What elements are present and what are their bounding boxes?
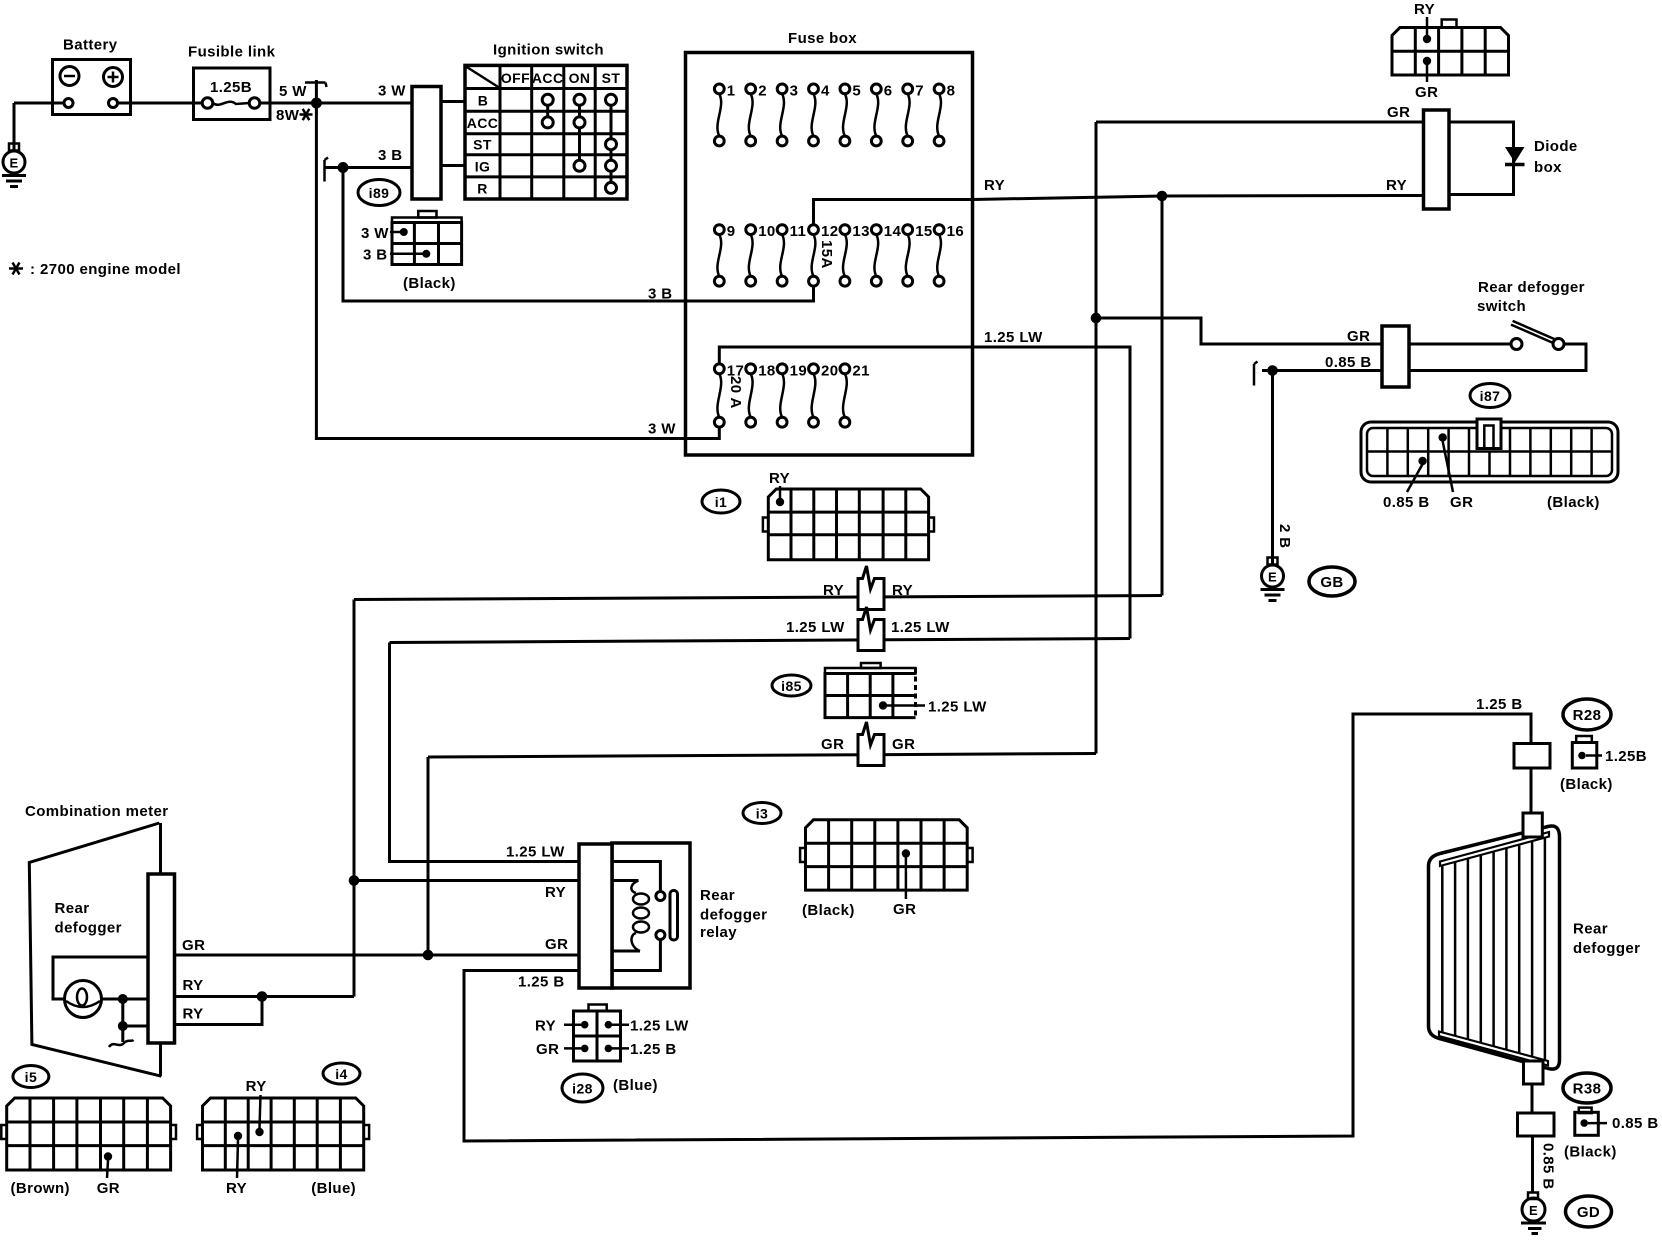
svg-text:Fusible link: Fusible link — [188, 44, 276, 61]
svg-text:1.25B: 1.25B — [210, 79, 252, 96]
svg-text:2 B: 2 B — [1276, 524, 1293, 549]
svg-text:0.85 B: 0.85 B — [1325, 354, 1372, 371]
svg-text:GR: GR — [821, 736, 844, 753]
svg-text:IG: IG — [475, 159, 491, 175]
svg-text:E: E — [1268, 570, 1277, 585]
svg-text:box: box — [1534, 159, 1562, 176]
svg-text:GR: GR — [893, 901, 916, 918]
svg-text:RY: RY — [1414, 1, 1435, 18]
svg-text:6: 6 — [884, 82, 893, 99]
svg-text:1.25 LW: 1.25 LW — [786, 619, 845, 636]
svg-text:1.25 LW: 1.25 LW — [928, 699, 987, 716]
svg-text:GR: GR — [97, 1180, 120, 1197]
svg-text:1.25 B: 1.25 B — [1476, 696, 1523, 713]
svg-text:1.25 LW: 1.25 LW — [891, 619, 950, 636]
svg-text:(Black): (Black) — [1547, 494, 1600, 511]
svg-text:OFF: OFF — [501, 70, 530, 86]
svg-text:E: E — [9, 156, 18, 171]
svg-text:GB: GB — [1320, 574, 1343, 591]
svg-text:0.85 B: 0.85 B — [1540, 1143, 1557, 1190]
svg-text:4: 4 — [821, 82, 830, 99]
svg-text:R28: R28 — [1573, 707, 1602, 724]
svg-text:3 W: 3 W — [648, 421, 676, 438]
svg-text:i89: i89 — [369, 185, 390, 201]
svg-text:Rear defogger: Rear defogger — [1478, 279, 1585, 296]
svg-text:ST: ST — [473, 137, 492, 153]
svg-text:RY: RY — [892, 582, 913, 599]
svg-text:RY: RY — [535, 1018, 556, 1035]
svg-text:1.25 LW: 1.25 LW — [984, 329, 1043, 346]
svg-text:10: 10 — [758, 223, 776, 240]
svg-text:Diode: Diode — [1534, 138, 1578, 155]
svg-text:defogger: defogger — [55, 920, 122, 937]
svg-text:1: 1 — [727, 82, 736, 99]
svg-text:RY: RY — [984, 177, 1005, 194]
svg-text:0.85 B: 0.85 B — [1383, 494, 1430, 511]
svg-text:i4: i4 — [335, 1066, 347, 1082]
svg-text:i5: i5 — [25, 1069, 37, 1085]
svg-text:: 2700 engine model: : 2700 engine model — [30, 261, 181, 278]
svg-text:GD: GD — [1577, 1204, 1600, 1221]
svg-text:20: 20 — [821, 362, 839, 379]
svg-text:Ignition switch: Ignition switch — [493, 42, 604, 59]
svg-text:RY: RY — [183, 1006, 204, 1023]
svg-text:defogger: defogger — [700, 907, 767, 924]
svg-text:5: 5 — [852, 82, 861, 99]
svg-text:ACC: ACC — [532, 70, 564, 86]
svg-text:3 W: 3 W — [361, 225, 389, 242]
svg-text:Rear: Rear — [700, 887, 735, 904]
svg-text:3 B: 3 B — [378, 147, 403, 164]
svg-text:Fuse box: Fuse box — [788, 30, 857, 47]
svg-text:15A: 15A — [818, 240, 835, 269]
svg-text:3 W: 3 W — [378, 83, 406, 100]
svg-text:RY: RY — [226, 1180, 247, 1197]
svg-text:i1: i1 — [715, 494, 727, 510]
svg-text:ST: ST — [602, 70, 621, 86]
svg-text:i28: i28 — [572, 1081, 593, 1097]
svg-text:0.85 B: 0.85 B — [1612, 1115, 1659, 1132]
svg-text:3: 3 — [790, 82, 799, 99]
svg-text:8W: 8W — [276, 107, 300, 124]
svg-text:Combination meter: Combination meter — [25, 803, 168, 820]
svg-text:RY: RY — [183, 977, 204, 994]
svg-text:RY: RY — [823, 582, 844, 599]
svg-text:relay: relay — [700, 924, 737, 941]
svg-text:R: R — [477, 181, 488, 197]
svg-text:(Blue): (Blue) — [311, 1180, 356, 1197]
svg-text:8: 8 — [947, 82, 956, 99]
svg-text:(Brown): (Brown) — [11, 1180, 70, 1197]
svg-text:1.25 B: 1.25 B — [518, 974, 565, 991]
svg-text:Rear: Rear — [55, 900, 90, 917]
svg-text:GR: GR — [1450, 494, 1473, 511]
svg-text:1.25B: 1.25B — [1605, 748, 1647, 765]
svg-text:1.25 LW: 1.25 LW — [506, 844, 565, 861]
svg-text:i3: i3 — [756, 806, 768, 822]
svg-text:3 B: 3 B — [363, 247, 388, 264]
svg-text:GR: GR — [892, 736, 915, 753]
svg-text:(Black): (Black) — [1560, 776, 1613, 793]
svg-text:RY: RY — [1386, 177, 1407, 194]
svg-text:(Black): (Black) — [1564, 1144, 1617, 1161]
svg-text:E: E — [1529, 1203, 1538, 1218]
svg-text:GR: GR — [536, 1041, 559, 1058]
svg-text:9: 9 — [727, 223, 736, 240]
svg-text:i85: i85 — [781, 678, 802, 694]
svg-text:15: 15 — [915, 223, 933, 240]
svg-text:14: 14 — [884, 223, 902, 240]
svg-text:B: B — [478, 93, 489, 109]
svg-text:ACC: ACC — [467, 115, 499, 131]
svg-text:16: 16 — [947, 223, 965, 240]
svg-text:12: 12 — [821, 223, 839, 240]
svg-text:1.25 LW: 1.25 LW — [630, 1018, 689, 1035]
svg-text:Rear: Rear — [1573, 921, 1608, 938]
svg-text:11: 11 — [790, 223, 807, 240]
svg-text:19: 19 — [790, 362, 808, 379]
svg-text:R38: R38 — [1573, 1081, 1602, 1098]
svg-text:2: 2 — [758, 82, 767, 99]
svg-text:GR: GR — [1347, 328, 1370, 345]
svg-text:7: 7 — [915, 82, 924, 99]
svg-text:(Blue): (Blue) — [613, 1077, 658, 1094]
svg-text:Battery: Battery — [63, 37, 118, 54]
svg-text:20 A: 20 A — [727, 376, 744, 409]
svg-text:5 W: 5 W — [279, 83, 307, 100]
svg-text:RY: RY — [769, 470, 790, 487]
svg-text:GR: GR — [1387, 104, 1410, 121]
svg-text:RY: RY — [545, 884, 566, 901]
svg-text:GR: GR — [182, 937, 205, 954]
svg-text:18: 18 — [758, 362, 776, 379]
svg-text:i87: i87 — [1480, 388, 1501, 404]
svg-text:ON: ON — [569, 70, 591, 86]
svg-text:21: 21 — [852, 362, 870, 379]
svg-text:13: 13 — [852, 223, 870, 240]
svg-text:(Black): (Black) — [802, 902, 855, 919]
svg-text:GR: GR — [1415, 84, 1438, 101]
svg-text:1.25 B: 1.25 B — [630, 1041, 677, 1058]
svg-text:switch: switch — [1477, 298, 1526, 315]
svg-text:GR: GR — [545, 936, 568, 953]
svg-text:defogger: defogger — [1573, 940, 1640, 957]
svg-text:(Black): (Black) — [403, 275, 456, 292]
svg-text:RY: RY — [246, 1078, 267, 1095]
